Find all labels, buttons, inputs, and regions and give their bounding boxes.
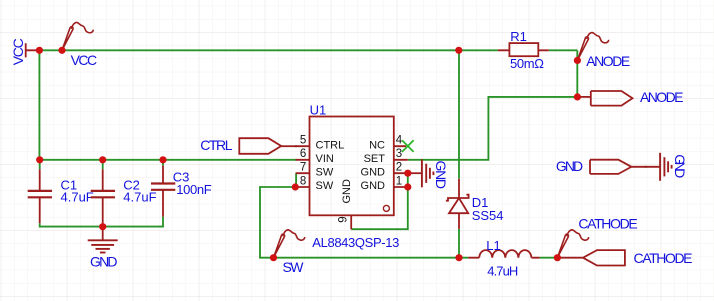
wire CTRL to pin 5 <box>281 145 296 147</box>
svg-text:AL8843QSP-13: AL8843QSP-13 <box>312 235 399 250</box>
svg-text:GND: GND <box>672 154 688 178</box>
ground symbol at caps <box>102 227 104 241</box>
junction C2 bottom / GND <box>99 223 106 230</box>
capacitor C1 <box>28 169 52 223</box>
svg-text:4: 4 <box>396 135 403 147</box>
svg-text:100nF: 100nF <box>176 182 212 197</box>
power port VCC (left edge) <box>26 43 40 57</box>
wire U1 pin9 to pin1/pin2 ground link <box>351 173 408 229</box>
wire VCC vertical to caps <box>38 50 40 160</box>
junction C1 top <box>36 156 43 163</box>
svg-text:8: 8 <box>300 175 306 187</box>
wire green nub at CTRL pin <box>294 145 297 147</box>
net flag VCC <box>62 22 93 50</box>
junction SW flag <box>270 254 277 261</box>
inductor L1 <box>468 250 540 258</box>
ground symbol at U1 pin 2 (rotated) <box>408 172 422 174</box>
wire L1 right to cathode node <box>540 257 558 259</box>
svg-text:GND: GND <box>556 158 583 174</box>
svg-text:CTRL: CTRL <box>200 137 233 153</box>
input connector CTRL <box>239 138 281 154</box>
svg-text:SW: SW <box>316 180 334 192</box>
junction U1 pin 2 <box>404 170 411 177</box>
no-connect cross on pin 4 <box>402 140 414 152</box>
junction U1 pin 1 <box>404 183 411 190</box>
U1 bottom pin stub 9 <box>350 215 352 229</box>
svg-text:GND: GND <box>433 161 449 190</box>
svg-text:CATHODE: CATHODE <box>634 250 693 266</box>
svg-text:ANODE: ANODE <box>640 89 684 105</box>
svg-text:50mΩ: 50mΩ <box>510 56 544 71</box>
wire SW net: pins 7-8 link and run to L1 <box>260 173 468 257</box>
resistor R1 <box>498 43 549 56</box>
svg-text:SET: SET <box>364 153 386 165</box>
svg-text:1: 1 <box>396 175 402 187</box>
U1 right pin stubs 4,3,2,1 <box>394 146 408 187</box>
ground symbol (right, rotated) <box>660 153 672 181</box>
U1 pin 1 marker circle <box>383 205 389 211</box>
svg-text:ANODE: ANODE <box>586 53 630 69</box>
junction VCC flag <box>58 47 65 54</box>
svg-text:3: 3 <box>396 148 402 160</box>
svg-text:9: 9 <box>338 216 350 222</box>
net flag ANODE <box>577 33 608 61</box>
junction ANODE connector <box>574 93 581 100</box>
svg-text:4.7uH: 4.7uH <box>487 263 518 278</box>
junction R1 branch <box>455 47 462 54</box>
wire green nub at GND connector <box>644 166 647 168</box>
wire D1 bottom to SW rail <box>458 229 460 258</box>
junction D1 / SW rail <box>455 254 462 261</box>
svg-text:5: 5 <box>300 135 306 147</box>
svg-text:GND: GND <box>90 254 118 270</box>
svg-text:GND: GND <box>341 179 353 204</box>
wire caps bottom rail <box>40 217 163 227</box>
net flag CATHODE <box>557 230 588 258</box>
wire C2 bottom stub <box>102 223 104 226</box>
svg-text:7: 7 <box>300 162 306 174</box>
wire GND connector to ground <box>631 166 659 168</box>
U1 left pin stubs 5,6,7,8 <box>296 146 310 187</box>
svg-text:SS54: SS54 <box>472 208 504 223</box>
capacitor C3 <box>151 166 175 217</box>
svg-text:NC: NC <box>369 140 385 152</box>
svg-text:GND: GND <box>361 167 386 179</box>
op-amp U1 body <box>310 117 394 216</box>
junction ANODE flag <box>574 57 581 64</box>
svg-text:6: 6 <box>300 148 306 160</box>
wire VCC top rail <box>39 49 577 51</box>
junction VCC rail / vertical <box>36 47 43 54</box>
svg-text:SW: SW <box>316 167 334 179</box>
wire C3 top stub <box>162 160 164 166</box>
svg-text:4.7uF: 4.7uF <box>123 189 156 204</box>
svg-text:CTRL: CTRL <box>316 140 345 152</box>
capacitor C2 <box>91 169 115 223</box>
svg-text:VCC: VCC <box>71 52 98 68</box>
junction CATHODE <box>554 254 561 261</box>
svg-text:R1: R1 <box>510 29 527 44</box>
svg-text:GND: GND <box>361 180 386 192</box>
svg-text:U1: U1 <box>310 103 327 118</box>
svg-text:4.7uF: 4.7uF <box>61 189 94 204</box>
svg-text:CATHODE: CATHODE <box>578 216 637 232</box>
wire anode branch vertical <box>576 50 578 97</box>
junction C2 top <box>99 156 106 163</box>
wire C2 top stub <box>102 160 104 169</box>
junction C3 top <box>159 156 166 163</box>
svg-text:SW: SW <box>283 259 305 275</box>
wire R1 branch to D1 vertical <box>458 50 460 179</box>
junction U1 pin 8 <box>292 183 299 190</box>
wire SET to anode feedback <box>408 97 578 160</box>
diode D1 SS54 <box>446 179 469 229</box>
svg-text:VIN: VIN <box>316 153 334 165</box>
svg-text:VCC: VCC <box>10 38 26 65</box>
wire caps top rail to U1 VIN <box>39 159 296 161</box>
wire C1 top stub <box>39 160 41 169</box>
pin connector ANODE <box>577 96 590 98</box>
net flag SW <box>274 230 305 258</box>
svg-text:2: 2 <box>396 162 402 174</box>
pin connector CATHODE <box>557 257 583 259</box>
svg-text:L1: L1 <box>486 238 500 253</box>
